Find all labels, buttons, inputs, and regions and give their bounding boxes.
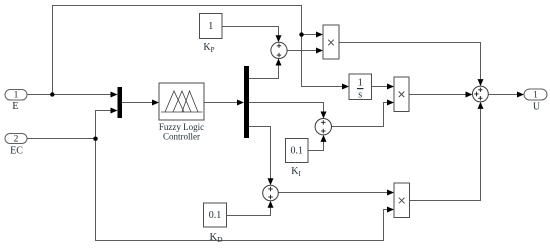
svg-text:Fuzzy Logic: Fuzzy Logic — [159, 122, 204, 132]
svg-text:E: E — [12, 101, 18, 112]
svg-text:1: 1 — [208, 21, 213, 32]
svg-text:Controller: Controller — [163, 132, 200, 142]
svg-text:1: 1 — [14, 91, 19, 101]
svg-text:1: 1 — [533, 90, 538, 100]
svg-text:1: 1 — [358, 78, 363, 89]
svg-text:2: 2 — [14, 135, 19, 145]
svg-text:U: U — [533, 102, 541, 113]
svg-text:s: s — [358, 90, 362, 101]
svg-text:0.1: 0.1 — [290, 145, 303, 156]
svg-text:EC: EC — [10, 146, 23, 157]
svg-text:0.1: 0.1 — [209, 210, 222, 221]
